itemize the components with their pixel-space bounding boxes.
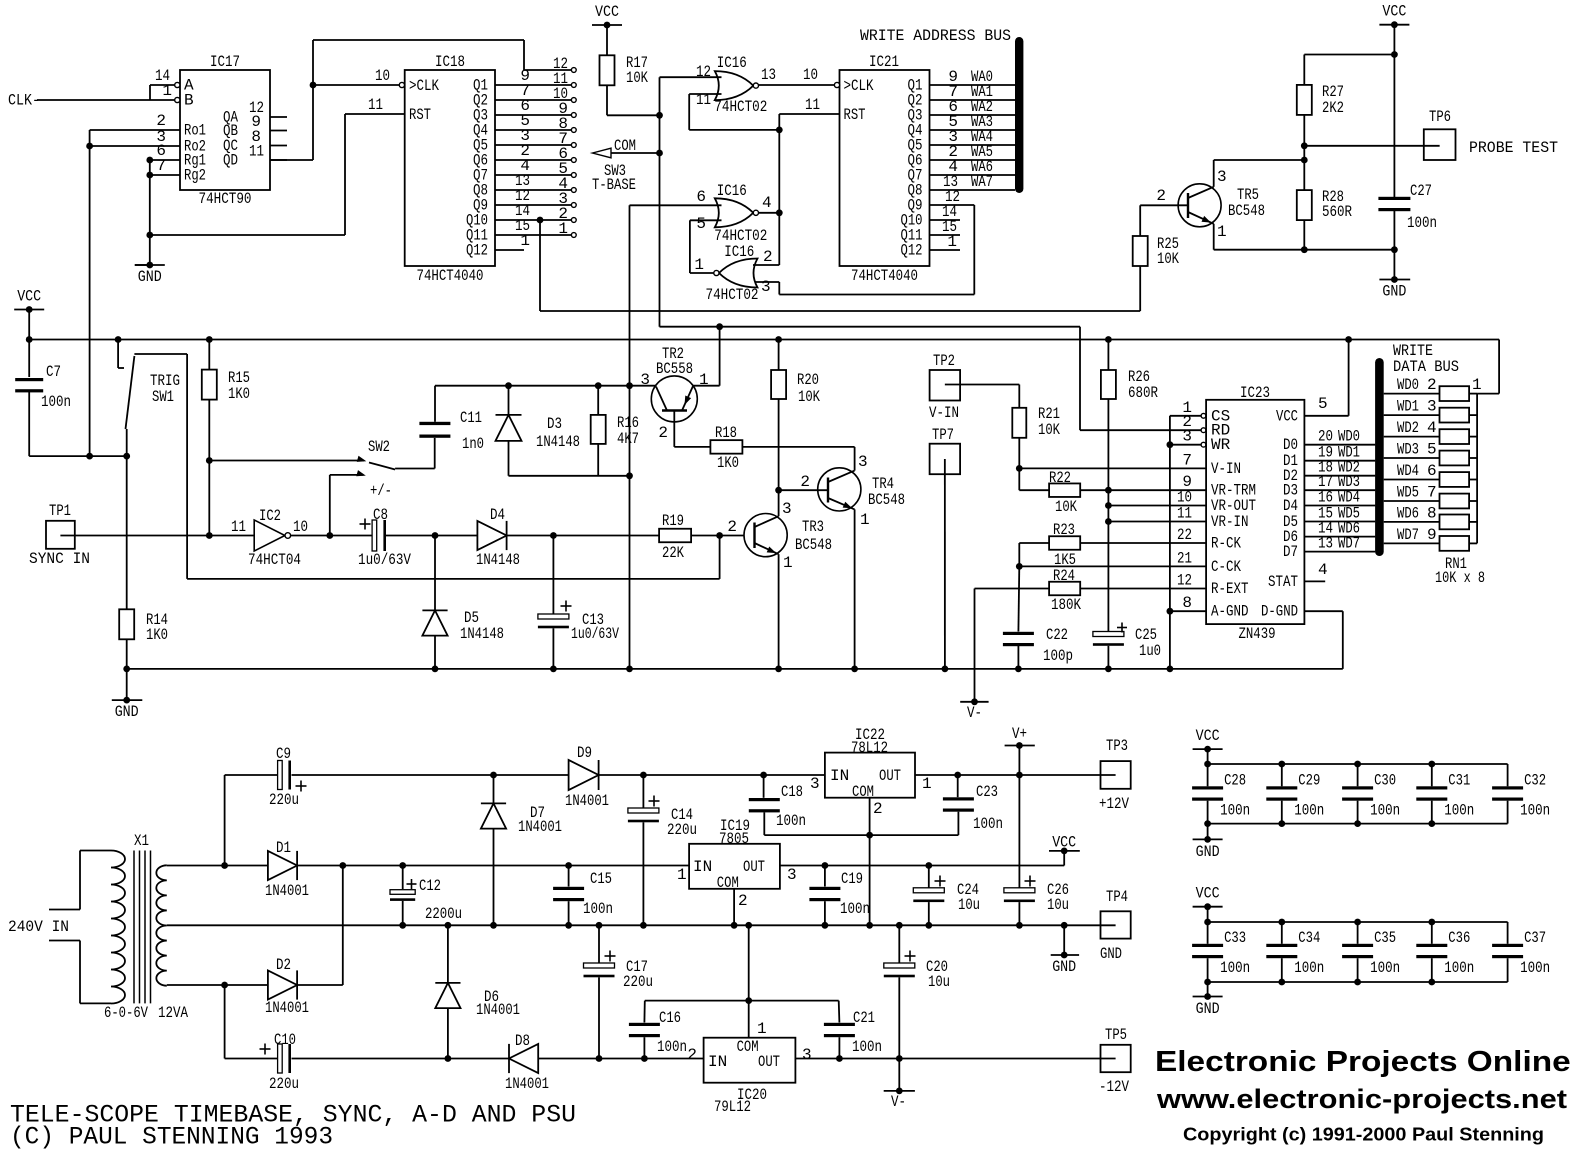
svg-text:WRITE ADDRESS BUS: WRITE ADDRESS BUS	[860, 27, 1011, 45]
svg-text:2200u: 2200u	[425, 905, 462, 923]
svg-text:WD2: WD2	[1397, 419, 1419, 437]
svg-text:C28: C28	[1224, 771, 1246, 789]
svg-text:2: 2	[1427, 376, 1437, 394]
svg-text:74HCT04: 74HCT04	[248, 551, 301, 569]
svg-text:74HCT02: 74HCT02	[714, 98, 767, 116]
svg-text:IC16: IC16	[717, 182, 747, 200]
svg-text:(C) PAUL STENNING 1993: (C) PAUL STENNING 1993	[10, 1124, 333, 1152]
svg-text:C18: C18	[781, 783, 803, 801]
svg-text:10: 10	[293, 518, 308, 536]
svg-text:8: 8	[1427, 504, 1437, 522]
svg-text:74HCT4040: 74HCT4040	[417, 267, 484, 285]
svg-text:R20: R20	[797, 371, 819, 389]
svg-text:11: 11	[368, 96, 383, 114]
svg-text:RST: RST	[409, 106, 431, 124]
svg-text:www.electronic-projects.net: www.electronic-projects.net	[1156, 1084, 1567, 1114]
svg-text:R-EXT: R-EXT	[1211, 580, 1249, 598]
svg-text:10u: 10u	[1047, 896, 1069, 914]
svg-text:D9: D9	[577, 744, 592, 762]
svg-text:12: 12	[1177, 572, 1192, 590]
svg-text:C11: C11	[460, 409, 482, 427]
svg-text:VCC: VCC	[1196, 727, 1220, 745]
svg-text:IC2: IC2	[259, 507, 281, 525]
svg-text:100n: 100n	[1407, 214, 1437, 232]
svg-text:V-IN: V-IN	[1211, 460, 1241, 478]
svg-text:IC16: IC16	[724, 243, 754, 261]
svg-text:D-GND: D-GND	[1261, 603, 1298, 621]
svg-text:SW1: SW1	[152, 388, 174, 406]
svg-text:1: 1	[783, 554, 793, 572]
svg-text:C35: C35	[1374, 929, 1396, 947]
svg-text:1N4148: 1N4148	[476, 551, 520, 569]
svg-text:Electronic Projects Online: Electronic Projects Online	[1155, 1046, 1571, 1078]
svg-text:5: 5	[696, 215, 706, 233]
svg-text:1K0: 1K0	[228, 385, 250, 403]
svg-text:Q12: Q12	[901, 242, 923, 260]
svg-text:C8: C8	[373, 506, 388, 524]
svg-text:WD6: WD6	[1397, 504, 1419, 522]
svg-text:WD3: WD3	[1397, 441, 1419, 459]
svg-text:WD1: WD1	[1397, 398, 1419, 416]
svg-text:22: 22	[1177, 526, 1192, 544]
svg-text:1: 1	[922, 775, 932, 793]
svg-text:X1: X1	[134, 832, 149, 850]
svg-text:TP2: TP2	[933, 352, 955, 370]
svg-text:3: 3	[761, 278, 771, 296]
svg-text:C29: C29	[1298, 771, 1320, 789]
svg-text:C9: C9	[276, 745, 291, 763]
svg-text:10K: 10K	[1157, 250, 1179, 268]
svg-text:6-0-6V: 6-0-6V	[104, 1004, 148, 1022]
svg-text:D4: D4	[490, 506, 505, 524]
svg-text:13: 13	[761, 66, 776, 84]
svg-text:1: 1	[677, 866, 687, 884]
svg-text:IN: IN	[830, 767, 849, 785]
svg-text:8: 8	[1182, 594, 1192, 612]
svg-text:COM: COM	[737, 1038, 759, 1056]
svg-text:IC16: IC16	[717, 54, 747, 72]
svg-text:100n: 100n	[776, 812, 806, 830]
svg-text:WD0: WD0	[1397, 376, 1419, 394]
svg-text:100n: 100n	[1220, 802, 1250, 820]
svg-text:V-: V-	[891, 1093, 906, 1111]
svg-text:VCC: VCC	[1196, 885, 1220, 903]
svg-text:21: 21	[1177, 549, 1192, 567]
svg-text:BC548: BC548	[795, 536, 832, 554]
svg-text:2K2: 2K2	[1322, 99, 1344, 117]
svg-text:V-: V-	[967, 704, 982, 722]
svg-text:VCC: VCC	[1276, 407, 1298, 425]
svg-text:1N4148: 1N4148	[460, 625, 504, 643]
svg-text:1u0/63V: 1u0/63V	[358, 551, 411, 569]
svg-text:BC548: BC548	[868, 491, 905, 509]
svg-text:+/-: +/-	[370, 482, 392, 500]
svg-text:10K: 10K	[626, 69, 648, 87]
svg-text:1N4001: 1N4001	[518, 818, 562, 836]
svg-text:1u0/63V: 1u0/63V	[571, 625, 619, 643]
svg-text:BC548: BC548	[1228, 202, 1265, 220]
svg-text:D7: D7	[1283, 543, 1298, 561]
svg-text:100p: 100p	[1043, 647, 1073, 665]
svg-text:D2: D2	[276, 956, 291, 974]
svg-text:100n: 100n	[973, 815, 1003, 833]
svg-text:C15: C15	[590, 870, 612, 888]
svg-text:SYNC IN: SYNC IN	[29, 550, 90, 568]
svg-text:11: 11	[249, 143, 264, 161]
svg-text:1: 1	[162, 82, 172, 100]
svg-text:GND: GND	[1196, 843, 1220, 861]
svg-text:C21: C21	[853, 1009, 875, 1027]
svg-text:6: 6	[696, 188, 706, 206]
svg-text:IN: IN	[708, 1053, 727, 1071]
svg-text:OUT: OUT	[743, 858, 765, 876]
svg-text:COM: COM	[852, 783, 874, 801]
svg-text:100n: 100n	[1370, 959, 1400, 977]
svg-text:GND: GND	[138, 268, 162, 286]
svg-text:1N4001: 1N4001	[265, 999, 309, 1017]
svg-text:1N4001: 1N4001	[505, 1075, 549, 1093]
svg-text:C31: C31	[1448, 771, 1470, 789]
svg-text:C27: C27	[1410, 182, 1432, 200]
svg-text:C34: C34	[1298, 929, 1320, 947]
svg-text:VCC: VCC	[595, 3, 619, 21]
svg-text:IC17: IC17	[210, 53, 240, 71]
svg-text:220u: 220u	[269, 791, 299, 809]
svg-text:1: 1	[694, 256, 704, 274]
svg-text:C37: C37	[1524, 929, 1546, 947]
svg-text:74HCT02: 74HCT02	[706, 286, 759, 304]
svg-text:7: 7	[1427, 484, 1437, 502]
svg-text:5: 5	[1427, 441, 1437, 459]
svg-text:1: 1	[1472, 376, 1482, 394]
svg-text:A-GND: A-GND	[1211, 603, 1249, 621]
svg-text:100n: 100n	[1220, 959, 1250, 977]
svg-text:1N4001: 1N4001	[476, 1001, 520, 1019]
svg-text:COM: COM	[614, 137, 636, 155]
svg-text:2: 2	[800, 473, 810, 491]
svg-text:22K: 22K	[662, 544, 684, 562]
svg-text:COM: COM	[717, 874, 739, 892]
svg-text:WR: WR	[1211, 436, 1231, 454]
svg-text:1: 1	[947, 233, 957, 251]
svg-text:5: 5	[1318, 395, 1328, 413]
svg-text:1: 1	[520, 232, 530, 250]
svg-text:R19: R19	[662, 512, 684, 530]
svg-text:7: 7	[156, 157, 166, 175]
svg-text:CLK-: CLK-	[8, 92, 40, 110]
svg-text:74HCT90: 74HCT90	[199, 190, 252, 208]
svg-text:Copyright (c) 1991-2000 Paul S: Copyright (c) 1991-2000 Paul Stenning	[1183, 1125, 1544, 1145]
svg-text:WD7: WD7	[1397, 526, 1419, 544]
svg-text:180K: 180K	[1051, 596, 1081, 614]
svg-text:11: 11	[696, 91, 711, 109]
svg-text:IN: IN	[693, 858, 712, 876]
svg-text:SW2: SW2	[368, 438, 390, 456]
svg-text:C30: C30	[1374, 771, 1396, 789]
svg-text:>CLK: >CLK	[844, 77, 874, 95]
svg-text:3: 3	[782, 500, 792, 518]
svg-text:10u: 10u	[928, 973, 950, 991]
svg-text:VCC: VCC	[1382, 3, 1406, 21]
svg-text:13: 13	[1318, 535, 1333, 553]
svg-text:C7: C7	[46, 363, 61, 381]
svg-text:3: 3	[787, 866, 797, 884]
svg-text:STAT: STAT	[1268, 573, 1298, 591]
svg-text:BC558: BC558	[656, 360, 693, 378]
svg-text:240V IN: 240V IN	[8, 918, 69, 936]
svg-text:12VA: 12VA	[158, 1004, 188, 1022]
svg-text:TP5: TP5	[1105, 1026, 1127, 1044]
svg-text:WD4: WD4	[1397, 462, 1419, 480]
svg-text:GND: GND	[1100, 945, 1122, 963]
svg-text:220u: 220u	[623, 973, 653, 991]
svg-text:11: 11	[231, 518, 246, 536]
svg-text:4: 4	[1427, 419, 1437, 437]
svg-text:2: 2	[727, 518, 737, 536]
svg-text:Q12: Q12	[466, 242, 488, 260]
svg-text:560R: 560R	[1322, 203, 1352, 221]
svg-text:100n: 100n	[1294, 802, 1324, 820]
svg-text:GND: GND	[1196, 1000, 1220, 1018]
svg-text:+12V: +12V	[1099, 795, 1129, 813]
svg-text:TP6: TP6	[1429, 108, 1451, 126]
svg-text:3: 3	[802, 1046, 812, 1064]
svg-text:C36: C36	[1448, 929, 1470, 947]
svg-text:11: 11	[1177, 505, 1192, 523]
svg-text:100n: 100n	[852, 1038, 882, 1056]
svg-text:7: 7	[1182, 451, 1192, 469]
svg-text:1K0: 1K0	[146, 626, 168, 644]
svg-text:10: 10	[803, 66, 818, 84]
svg-text:C10: C10	[274, 1031, 296, 1049]
svg-text:10K: 10K	[1055, 498, 1077, 516]
svg-text:2: 2	[873, 800, 883, 818]
svg-text:C32: C32	[1524, 771, 1546, 789]
svg-text:R24: R24	[1053, 567, 1075, 585]
svg-text:10u: 10u	[958, 896, 980, 914]
svg-text:3: 3	[1217, 168, 1227, 186]
svg-text:220u: 220u	[667, 821, 697, 839]
svg-text:100n: 100n	[1444, 802, 1474, 820]
svg-text:OUT: OUT	[758, 1053, 780, 1071]
svg-text:R23: R23	[1053, 521, 1075, 539]
svg-text:GND: GND	[1052, 958, 1076, 976]
svg-text:GND: GND	[115, 703, 139, 721]
svg-text:1N4148: 1N4148	[536, 433, 580, 451]
svg-text:4: 4	[762, 194, 772, 212]
svg-text:12: 12	[696, 63, 711, 81]
svg-text:680R: 680R	[1128, 384, 1158, 402]
svg-text:3: 3	[1427, 398, 1437, 416]
svg-text:D3: D3	[547, 415, 562, 433]
svg-text:10K: 10K	[798, 388, 820, 406]
svg-text:C12: C12	[419, 877, 441, 895]
svg-text:WD5: WD5	[1397, 484, 1419, 502]
svg-text:3: 3	[640, 371, 650, 389]
svg-text:-12V: -12V	[1099, 1078, 1129, 1096]
svg-text:T-BASE: T-BASE	[592, 176, 636, 194]
svg-text:V-IN: V-IN	[929, 404, 959, 422]
svg-text:R18: R18	[715, 424, 737, 442]
svg-text:ZN439: ZN439	[1239, 625, 1276, 643]
svg-text:GND: GND	[1382, 283, 1406, 301]
svg-text:79L12: 79L12	[714, 1098, 751, 1116]
svg-text:OUT: OUT	[879, 767, 901, 785]
svg-text:R-CK: R-CK	[1211, 535, 1241, 553]
svg-text:1N4001: 1N4001	[565, 792, 609, 810]
svg-text:2: 2	[763, 248, 773, 266]
svg-text:C33: C33	[1224, 929, 1246, 947]
svg-text:3: 3	[810, 775, 820, 793]
svg-text:6: 6	[1427, 462, 1437, 480]
svg-text:4: 4	[1318, 561, 1328, 579]
svg-text:1n0: 1n0	[462, 435, 484, 453]
svg-text:10: 10	[375, 67, 390, 85]
svg-text:VR-IN: VR-IN	[1211, 513, 1249, 531]
svg-text:100n: 100n	[1520, 959, 1550, 977]
svg-text:11: 11	[805, 96, 820, 114]
svg-text:V+: V+	[1012, 725, 1027, 743]
svg-text:3: 3	[1182, 428, 1192, 446]
svg-text:DATA BUS: DATA BUS	[1393, 358, 1459, 376]
svg-text:TP1: TP1	[49, 502, 71, 520]
svg-text:9: 9	[1427, 526, 1437, 544]
svg-text:100n: 100n	[840, 900, 870, 918]
svg-text:1: 1	[757, 1020, 767, 1038]
svg-text:10K: 10K	[1038, 421, 1060, 439]
svg-text:100n: 100n	[583, 900, 613, 918]
svg-text:7805: 7805	[719, 830, 749, 848]
svg-text:D8: D8	[515, 1032, 530, 1050]
svg-text:IC23: IC23	[1240, 384, 1270, 402]
svg-text:1N4001: 1N4001	[265, 882, 309, 900]
svg-text:74HCT4040: 74HCT4040	[851, 267, 918, 285]
svg-text:C16: C16	[659, 1009, 681, 1027]
svg-text:2: 2	[658, 424, 668, 442]
svg-text:R22: R22	[1049, 469, 1071, 487]
svg-text:1: 1	[699, 371, 709, 389]
svg-text:2: 2	[738, 892, 748, 910]
svg-text:4K7: 4K7	[617, 430, 639, 448]
svg-text:TP7: TP7	[932, 426, 954, 444]
svg-text:C22: C22	[1046, 626, 1068, 644]
svg-text:VCC: VCC	[17, 288, 41, 306]
svg-text:100n: 100n	[657, 1038, 687, 1056]
svg-text:QD: QD	[223, 152, 238, 170]
svg-text:C23: C23	[976, 783, 998, 801]
svg-text:C-CK: C-CK	[1211, 558, 1241, 576]
svg-text:IC21: IC21	[869, 53, 899, 71]
svg-text:>CLK: >CLK	[409, 77, 439, 95]
svg-text:IC18: IC18	[435, 53, 465, 71]
svg-text:100n: 100n	[1370, 802, 1400, 820]
svg-text:100n: 100n	[1294, 959, 1324, 977]
svg-text:Rg2: Rg2	[184, 167, 206, 185]
svg-text:1K0: 1K0	[717, 454, 739, 472]
svg-text:2: 2	[1156, 187, 1166, 205]
svg-text:RST: RST	[844, 106, 866, 124]
svg-text:TP4: TP4	[1106, 888, 1128, 906]
svg-text:WD7: WD7	[1338, 535, 1360, 553]
svg-text:1: 1	[558, 220, 568, 238]
svg-text:TR3: TR3	[802, 518, 824, 536]
svg-text:2: 2	[687, 1046, 697, 1064]
svg-text:B: B	[184, 92, 194, 110]
svg-text:TP3: TP3	[1106, 737, 1128, 755]
svg-text:3: 3	[858, 453, 868, 471]
svg-text:PROBE TEST: PROBE TEST	[1469, 139, 1558, 157]
svg-text:10K x 8: 10K x 8	[1435, 569, 1485, 587]
svg-text:78L12: 78L12	[851, 739, 888, 757]
svg-text:100n: 100n	[41, 393, 71, 411]
svg-text:100n: 100n	[1444, 959, 1474, 977]
svg-text:220u: 220u	[269, 1075, 299, 1093]
svg-text:1u0: 1u0	[1139, 642, 1161, 660]
svg-text:D1: D1	[276, 839, 291, 857]
svg-text:C19: C19	[841, 870, 863, 888]
svg-text:100n: 100n	[1520, 802, 1550, 820]
svg-text:1: 1	[860, 511, 870, 529]
svg-text:WA7: WA7	[971, 173, 993, 191]
svg-text:1: 1	[1217, 223, 1227, 241]
